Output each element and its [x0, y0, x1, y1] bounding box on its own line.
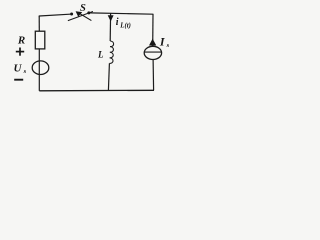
resistor R body — [35, 31, 45, 49]
current source Is arrow — [149, 39, 156, 46]
label iL(t) — [116, 17, 131, 29]
switch S blade — [68, 12, 92, 21]
node switch left terminal — [70, 13, 73, 16]
inductor L coil — [109, 41, 113, 63]
svg-text:R: R — [17, 35, 25, 47]
svg-text:s: s — [166, 42, 170, 49]
wire top right segment — [90, 13, 153, 14]
wire top left segment — [39, 14, 70, 16]
voltage source Us circle — [32, 61, 49, 75]
wire right branch upper — [152, 14, 154, 46]
switch S actuation arrow — [76, 11, 91, 20]
svg-text:L: L — [97, 50, 104, 60]
svg-text:L(t): L(t) — [119, 22, 131, 29]
plus polarity of Us — [16, 48, 24, 56]
svg-text:U: U — [14, 63, 23, 75]
wire resistor to source and through source to bottom — [38, 49, 40, 91]
svg-text:s: s — [23, 68, 27, 75]
label Us — [14, 63, 27, 76]
wire right branch lower — [152, 59, 155, 90]
wire middle branch lower — [108, 63, 109, 90]
wire left branch — [38, 16, 40, 31]
current source Is circle — [144, 46, 161, 59]
node switch right terminal — [87, 11, 90, 14]
svg-text:S: S — [80, 3, 86, 14]
svg-text:i: i — [116, 17, 119, 28]
current arrow iL — [108, 15, 114, 21]
wire bottom — [39, 89, 154, 92]
wire middle branch upper — [109, 13, 111, 41]
label Is — [159, 34, 170, 49]
svg-text:I: I — [159, 34, 166, 48]
minus polarity of Us — [14, 79, 23, 81]
current source Is bar — [144, 51, 161, 53]
